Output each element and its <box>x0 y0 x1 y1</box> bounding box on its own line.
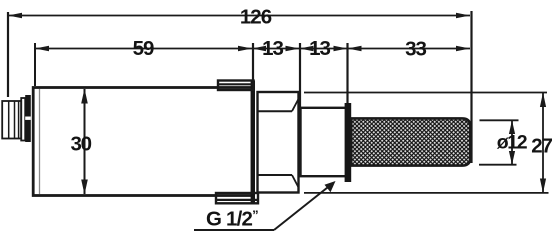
hex nut outline <box>258 92 299 193</box>
dimension 13 first line <box>252 48 300 50</box>
thread leader underline <box>194 229 274 231</box>
extension line far left <box>7 12 9 97</box>
mounting tab bottom <box>216 193 258 203</box>
mounting tab top <box>218 81 254 91</box>
connector locking ring gap <box>25 117 31 120</box>
housing edge line <box>39 89 41 194</box>
connector collar <box>21 98 25 141</box>
diameter 12 bottom arrow <box>509 151 515 165</box>
svg-text:ø12: ø12 <box>497 132 528 154</box>
svg-text:30: 30 <box>70 133 91 156</box>
housing body <box>33 88 252 196</box>
dimension 126 left arrow <box>8 13 22 19</box>
dimension 13 second left arrow <box>300 46 314 52</box>
mounting tab bottom inner line <box>216 199 258 201</box>
dimension 13 second line <box>300 48 348 50</box>
seal washer <box>345 103 352 182</box>
dimension 126 line <box>8 15 470 17</box>
dimension 27 bottom arrow <box>540 179 546 194</box>
svg-text:59: 59 <box>133 37 154 60</box>
dimension 27 line <box>542 93 544 194</box>
hex flat lower line <box>258 174 293 176</box>
svg-text:126: 126 <box>240 5 272 28</box>
connector plug body <box>2 101 21 139</box>
dimension 59 right arrow <box>238 46 252 52</box>
hex chamfer upper diagonal <box>292 100 298 112</box>
extension line far right <box>470 11 472 163</box>
diameter 12 top tick <box>480 119 519 121</box>
svg-text:13: 13 <box>262 37 283 60</box>
svg-text:13: 13 <box>309 37 330 60</box>
dimension 30 line <box>84 89 86 194</box>
connector plug rib 3 <box>18 101 20 139</box>
dimension 13 first right arrow <box>286 46 300 52</box>
thread leader arrowhead <box>325 181 336 192</box>
extension line at thread right <box>346 43 348 104</box>
extension line at hex left <box>252 43 254 82</box>
diameter 12 top arrow <box>509 120 515 134</box>
mounting tab top inner line <box>218 83 254 85</box>
dimension 33 line <box>348 48 471 50</box>
connector locking ring <box>25 95 31 142</box>
knurled pressure port <box>351 118 470 165</box>
dimension 13 second right arrow <box>334 46 348 52</box>
dimension 27 top extension line <box>304 92 547 94</box>
dimension 59 left arrow <box>35 46 49 52</box>
dimension 27 top arrow <box>540 93 546 108</box>
dimension 33 left arrow <box>348 46 362 52</box>
diameter 12 dimension line <box>511 120 513 164</box>
diameter 12 bottom tick <box>479 164 517 166</box>
dimension 30 top arrow <box>81 89 88 104</box>
hex flat upper line <box>258 110 293 112</box>
end cap bar <box>251 81 255 204</box>
connector plug rib 1 <box>8 101 10 139</box>
svg-text:27: 27 <box>531 134 552 157</box>
dimension 59 line <box>35 48 252 50</box>
dimension 126 right arrow <box>456 13 470 19</box>
dimension 13 first left arrow <box>252 46 266 52</box>
hex chamfer lower diagonal <box>292 175 298 187</box>
extension line at body left <box>34 43 36 86</box>
thread section G 1/2 <box>301 108 347 176</box>
extension line at thread left <box>299 43 301 109</box>
dimension 30 bottom arrow <box>81 180 88 195</box>
connector plug rib 2 <box>14 101 16 139</box>
svg-text:G 1/2”: G 1/2” <box>206 207 258 230</box>
dimension 33 right arrow <box>456 46 470 52</box>
thread leader diagonal <box>274 186 330 231</box>
svg-text:33: 33 <box>405 38 426 61</box>
dimension 27 bottom extension line <box>304 192 549 194</box>
